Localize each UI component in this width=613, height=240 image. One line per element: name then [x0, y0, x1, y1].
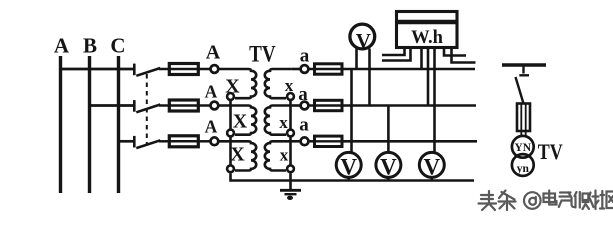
- voltmeter PV0: [350, 24, 375, 49]
- svg-text:A: A: [205, 116, 218, 136]
- svg-text:V: V: [356, 29, 371, 53]
- single-line fuse FU: [517, 104, 530, 132]
- secondary fuse FU5: [315, 100, 343, 110]
- svg-text:V: V: [423, 155, 440, 180]
- wire bus A to switch QS1: [61, 68, 134, 71]
- terminal A phase 2: [211, 102, 219, 110]
- svg-text:X: X: [230, 144, 245, 166]
- PJ voltage terminal wire phase a: [420, 48, 423, 70]
- svg-text:x: x: [280, 146, 289, 165]
- wire phase 1 bus to voltmeter PV1: [350, 69, 353, 153]
- svg-text:TV: TV: [249, 42, 276, 68]
- wire terminal a to fuse FU6: [309, 140, 315, 143]
- terminal a phase 3: [301, 137, 309, 145]
- secondary bus phase 3: [342, 140, 477, 143]
- svg-text:B: B: [83, 33, 97, 57]
- disconnect switch QS1 blade: [136, 68, 160, 76]
- voltmeter PV1: [347, 177, 350, 182]
- svg-text:yn: yn: [517, 163, 530, 175]
- wire fuse FU3 to terminal A: [198, 140, 210, 143]
- svg-text:V: V: [380, 155, 397, 180]
- wire voltmeter PV0 right leg to phase-b bus: [368, 49, 371, 106]
- primary neutral wire X1-X2: [229, 101, 232, 129]
- wire voltmeter PV0 left leg to phase-a bus: [355, 49, 358, 70]
- terminal X phase 2: [227, 130, 234, 137]
- wire fuse FU1 to terminal A: [198, 68, 210, 71]
- wire switch QS3 to fuse FU3: [159, 140, 170, 143]
- wire switch QS1 to fuse FU1: [159, 68, 170, 71]
- svg-text:a: a: [300, 46, 310, 67]
- watermark text (embossed gray): [479, 191, 613, 211]
- single-line transformer TV secondary circle yn: [512, 154, 534, 176]
- wire fuse FU2 to terminal A: [198, 104, 210, 107]
- TV primary winding phase 3: [235, 141, 256, 170]
- wire switch QS2 to fuse FU2: [159, 104, 170, 107]
- secondary bus phase 1: [342, 68, 475, 71]
- wire terminal A to primary winding phase 1: [219, 68, 249, 71]
- PJ current terminal stub 3 (to CT, open): [444, 48, 466, 56]
- wire terminal a to fuse FU4: [309, 68, 315, 71]
- fuse FU3: [169, 136, 198, 147]
- svg-text:X: X: [233, 111, 248, 133]
- svg-text:x: x: [279, 113, 288, 132]
- voltmeter PV2: [387, 177, 390, 182]
- svg-text:a: a: [298, 84, 308, 105]
- wire terminal a to fuse FU5: [309, 104, 315, 107]
- svg-text:x: x: [285, 76, 294, 95]
- secondary neutral wire x1-x2: [289, 101, 292, 129]
- watt-hour meter PJ box: [397, 12, 458, 48]
- terminal x phase 2: [287, 130, 294, 137]
- switch gang linkage (dashed): [146, 74, 148, 145]
- wire phase 2 bus to voltmeter PV2: [387, 106, 390, 153]
- svg-text:W.h: W.h: [411, 28, 443, 48]
- busbar B: [88, 56, 91, 193]
- terminal a phase 1: [301, 65, 309, 73]
- watt-hour meter PJ top band: [398, 20, 457, 25]
- disconnect switch QS3 hinge contact: [133, 136, 136, 148]
- earthed neutral bus (bottom): [291, 179, 475, 182]
- TV secondary winding phase 2: [265, 106, 292, 135]
- fuse FU2: [169, 100, 198, 111]
- single-line isolator QS fixed contact: [522, 65, 524, 74]
- TV secondary winding phase 3: [265, 141, 292, 170]
- terminal X phase 1: [227, 93, 234, 100]
- wire secondary winding to terminal a phase 2: [292, 104, 300, 107]
- wire bus B to switch QS2: [90, 104, 134, 107]
- TV primary winding phase 1: [235, 69, 256, 98]
- ground symbol: [280, 189, 301, 192]
- busbar C: [117, 56, 120, 193]
- terminal x phase 1: [287, 93, 294, 100]
- fuse FU1: [169, 64, 198, 75]
- single-line transformer TV primary circle YN: [512, 136, 534, 158]
- wire secondary winding to terminal a phase 3: [292, 140, 300, 143]
- PJ voltage terminal wire phase c (continues to PV3): [433, 48, 436, 142]
- single-line isolator QS blade: [516, 77, 524, 104]
- terminal A phase 1: [211, 65, 219, 73]
- secondary neutral wire x2-x3: [289, 138, 292, 165]
- primary neutral wire X3 down to earth bus: [231, 173, 291, 180]
- wire bus C to switch QS3: [119, 140, 134, 143]
- svg-text:A: A: [205, 82, 218, 102]
- svg-text:YN: YN: [514, 142, 531, 154]
- secondary fuse FU6: [315, 136, 343, 146]
- primary neutral wire X2-X3: [229, 138, 232, 165]
- svg-text:A: A: [206, 42, 221, 64]
- secondary fuse FU4: [315, 64, 343, 74]
- wire secondary winding to terminal a phase 1: [292, 68, 300, 71]
- secondary neutral wire x3 to ground: [289, 173, 292, 189]
- disconnect switch QS2 hinge contact: [133, 100, 136, 112]
- TV secondary winding phase 1: [265, 69, 292, 98]
- terminal A phase 3: [211, 137, 219, 145]
- wire terminal A to primary winding phase 2: [219, 104, 249, 107]
- PJ current terminal stub 4 (to CT, open): [452, 48, 476, 63]
- busbar A: [59, 56, 62, 193]
- PJ current terminal stub 1 (to CT, open): [382, 48, 405, 56]
- disconnect switch QS2 blade: [136, 105, 160, 113]
- PJ current terminal stub 2 (to CT, open): [382, 48, 411, 61]
- secondary bus phase 2: [342, 104, 476, 107]
- disconnect switch QS3 blade: [136, 140, 160, 148]
- PJ voltage terminal wire phase b: [427, 48, 430, 106]
- terminal X phase 3: [227, 165, 234, 172]
- wire phase 3 bus to voltmeter PV3: [433, 141, 436, 153]
- terminal a phase 2: [301, 102, 309, 110]
- svg-text:C: C: [110, 33, 125, 57]
- single-line busbar: [502, 63, 546, 67]
- svg-text:A: A: [54, 33, 70, 57]
- voltmeter PV3: [430, 177, 433, 182]
- svg-text:V: V: [340, 155, 357, 180]
- terminal x phase 3: [287, 165, 294, 172]
- svg-text:a: a: [299, 115, 309, 136]
- disconnect switch QS1 hinge contact: [133, 64, 136, 76]
- svg-text:X: X: [225, 76, 240, 98]
- svg-text:TV: TV: [538, 139, 563, 164]
- wire terminal A to primary winding phase 3: [219, 140, 249, 143]
- TV primary winding phase 2: [235, 106, 256, 135]
